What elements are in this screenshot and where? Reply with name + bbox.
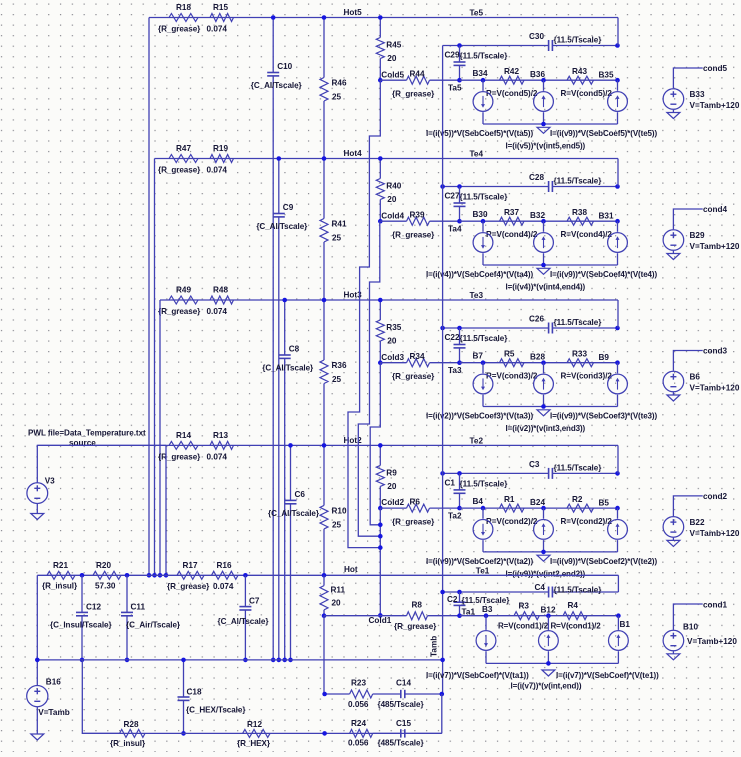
svg-text:V=Tamb+120: V=Tamb+120 [690, 101, 740, 110]
svg-text:R42: R42 [504, 67, 519, 76]
resistor R48 [210, 296, 234, 304]
current source B24 [543, 508, 545, 519]
voltage source B22 [663, 517, 684, 538]
svg-text:R6: R6 [410, 497, 421, 506]
svg-text:Te4: Te4 [470, 150, 484, 159]
svg-text:57.30: 57.30 [95, 581, 116, 590]
capacitor C3 [548, 468, 550, 479]
junction [378, 534, 383, 539]
junction [615, 184, 620, 189]
svg-text:cond3: cond3 [703, 347, 728, 356]
current source B12 [547, 616, 549, 630]
node B5 [615, 506, 620, 511]
wire Cold1 row [324, 615, 407, 617]
svg-text:0.074: 0.074 [207, 452, 228, 461]
junction [541, 404, 546, 409]
svg-text:R=V(cond5)/2: R=V(cond5)/2 [561, 89, 613, 98]
resistor R6 [380, 507, 406, 509]
current source B30 [482, 221, 484, 232]
wire right column [617, 300, 619, 328]
svg-text:R47: R47 [176, 144, 191, 153]
wire Cold5 bus [348, 80, 380, 547]
svg-text:{R_grease}: {R_grease} [392, 231, 435, 240]
svg-text:B35: B35 [599, 71, 614, 80]
resistor R39 [380, 220, 406, 222]
node Cold4 [378, 219, 383, 224]
wire Cold3 bus [370, 363, 380, 525]
ground [672, 110, 674, 113]
resistor R3 [514, 612, 539, 620]
svg-text:R49: R49 [176, 286, 191, 295]
svg-text:C2: C2 [447, 595, 458, 604]
svg-text:R9: R9 [386, 468, 397, 477]
svg-text:0.074: 0.074 [213, 582, 234, 591]
svg-text:20: 20 [387, 482, 397, 491]
junction [277, 156, 282, 161]
svg-text:{R_grease}: {R_grease} [167, 582, 210, 591]
svg-text:R41: R41 [332, 220, 347, 229]
junction [125, 658, 130, 663]
capacitor C14 [373, 693, 401, 695]
wire inner Tamb rail [443, 327, 460, 329]
junction [440, 326, 445, 331]
svg-text:R19: R19 [213, 144, 228, 153]
svg-text:{485/Tscale}: {485/Tscale} [378, 700, 425, 709]
svg-text:PWL file=Data_Temperature.txt: PWL file=Data_Temperature.txt [28, 429, 146, 438]
svg-text:C22: C22 [445, 333, 460, 342]
svg-text:B7: B7 [473, 352, 484, 361]
wire R11 column to R23 [323, 616, 325, 694]
svg-text:R5: R5 [504, 350, 515, 359]
svg-text:Ta4: Ta4 [448, 225, 462, 234]
wire air-R column stage 5 [323, 18, 325, 78]
capacitor C1 [459, 473, 461, 490]
current source B4 [482, 508, 484, 519]
svg-text:{11.5/Tscale}: {11.5/Tscale} [554, 318, 603, 327]
ground [537, 410, 550, 416]
resistor R9 [379, 445, 381, 465]
junction [80, 658, 85, 663]
node Ta3 [457, 360, 462, 365]
svg-text:C12: C12 [86, 603, 101, 612]
svg-text:{C_Al/Tscale}: {C_Al/Tscale} [218, 617, 270, 626]
resistor R37 [500, 217, 525, 225]
resistor R4 [563, 612, 587, 620]
svg-text:Tamb: Tamb [430, 636, 439, 657]
wire block bottom rail [483, 406, 618, 408]
wire B16 column [36, 575, 38, 685]
wire cond2 [673, 496, 702, 516]
svg-text:C15: C15 [396, 719, 411, 728]
svg-text:R46: R46 [332, 79, 347, 88]
ground [537, 268, 550, 274]
wire Ta row [460, 79, 618, 81]
capacitor C10 [267, 72, 279, 74]
svg-text:B36: B36 [530, 70, 545, 79]
svg-text:R48: R48 [213, 286, 228, 295]
wire C-column stage 3 [284, 300, 286, 355]
current source B5 [617, 508, 619, 519]
svg-text:R38: R38 [572, 208, 587, 217]
svg-text:{C_HEX/Tscale}: {C_HEX/Tscale} [186, 706, 246, 715]
svg-text:{485/Tscale}: {485/Tscale} [378, 739, 425, 748]
resistor R35 [379, 300, 381, 320]
wire cond4 [673, 209, 702, 229]
junction [457, 326, 462, 331]
junction [457, 184, 462, 189]
resistor R42 [500, 76, 525, 84]
wire feeder column stage 3 [159, 300, 161, 575]
junction [378, 443, 383, 448]
resistor R38 [567, 217, 594, 225]
resistor R10 [320, 505, 328, 529]
wire block bottom rail [486, 662, 618, 664]
ground [542, 670, 555, 676]
capacitor C30 [548, 40, 550, 51]
svg-text:I=(i(v9))*V(SebCoef2)*(V(te2)): I=(i(v9))*V(SebCoef2)*(V(te2)) [550, 557, 657, 566]
svg-text:I=(i(v5))*(v(int5,end5)): I=(i(v5))*(v(int5,end5)) [506, 142, 586, 151]
capacitor C9 [273, 213, 285, 215]
svg-text:25: 25 [332, 520, 342, 529]
wire Ta1 row [460, 615, 619, 617]
svg-text:R36: R36 [332, 361, 347, 370]
current source B32 [543, 221, 545, 232]
resistor R18 [169, 14, 198, 22]
svg-text:Ta2: Ta2 [448, 511, 462, 520]
svg-text:R20: R20 [96, 561, 111, 570]
junction [615, 326, 620, 331]
svg-text:R=V(cond4)/2: R=V(cond4)/2 [561, 230, 613, 239]
svg-text:{R_grease}: {R_grease} [158, 166, 201, 175]
resistor R44 [380, 79, 406, 81]
resistor R46 [320, 78, 328, 102]
capacitor C29 [459, 46, 461, 63]
node Cold2 [378, 506, 383, 511]
svg-text:Cold5: Cold5 [381, 70, 404, 79]
svg-text:R4: R4 [568, 601, 579, 610]
svg-text:I=(i(v9))*V(SebCoef4)*(V(te4)): I=(i(v9))*V(SebCoef4)*(V(te4)) [550, 270, 657, 279]
junction [282, 298, 287, 303]
wire Ta row [460, 220, 618, 222]
current source B9 [617, 363, 619, 374]
svg-text:C6: C6 [295, 490, 306, 499]
svg-text:V=Tamb: V=Tamb [38, 708, 69, 717]
wire feeder column stage 5 [148, 18, 150, 576]
svg-text:I=(i(v4))*(v(int4,end4)): I=(i(v4))*(v(int4,end4)) [506, 283, 586, 292]
wire Hot5/Te5 rail [149, 17, 618, 19]
junction [243, 658, 248, 663]
node Ta5 [457, 78, 462, 83]
wire feeder column stage 2 [165, 445, 167, 575]
junction [158, 573, 163, 578]
svg-text:R16: R16 [217, 561, 232, 570]
svg-text:R45: R45 [386, 41, 401, 50]
junction [378, 613, 383, 618]
current source B36 [543, 80, 545, 91]
resistor R36 [320, 360, 328, 384]
resistor R24 [350, 729, 373, 737]
svg-text:B3: B3 [482, 605, 493, 614]
svg-text:Cold2: Cold2 [381, 498, 404, 507]
wire cond1 [673, 604, 702, 630]
svg-text:C27: C27 [445, 192, 460, 201]
junction [541, 550, 546, 555]
svg-text:R18: R18 [176, 3, 191, 12]
wire Hot4/Te4 rail [155, 158, 619, 160]
svg-text:B6: B6 [690, 373, 701, 382]
node Cold3 [378, 360, 383, 365]
wire inner Tamb rail [443, 45, 460, 47]
capacitor C7 [244, 575, 246, 606]
resistor R47 [169, 155, 198, 163]
svg-text:I=(i(v9))*V(SebCoef5)*(V(te5)): I=(i(v9))*V(SebCoef5)*(V(te5)) [550, 129, 657, 138]
wire source [37, 445, 166, 482]
svg-text:cond1: cond1 [703, 601, 728, 610]
junction [541, 122, 546, 127]
capacitor C2 [459, 592, 461, 602]
svg-text:{11.5/Tscale}: {11.5/Tscale} [460, 193, 509, 202]
junction [181, 731, 186, 736]
node B31 [615, 219, 620, 224]
wire C-column stage 2 [290, 445, 292, 500]
node B7 [481, 360, 486, 365]
node B1 [616, 613, 621, 618]
wire C-column stage 5 [272, 18, 274, 73]
svg-text:{R_grease}: {R_grease} [392, 372, 435, 381]
resistor R12 [243, 729, 270, 737]
resistor R11 [323, 575, 325, 585]
svg-text:R37: R37 [504, 208, 519, 217]
junction [282, 658, 287, 663]
capacitor C27 [459, 187, 461, 204]
svg-text:{C_Air/Tscale}: {C_Air/Tscale} [126, 621, 181, 630]
svg-text:{11.5/Tscale}: {11.5/Tscale} [554, 586, 603, 595]
junction [322, 573, 327, 578]
junction [440, 658, 445, 663]
svg-text:{11.5/Tscale}: {11.5/Tscale} [554, 463, 603, 472]
svg-text:R=V(cond1)/2: R=V(cond1)/2 [498, 622, 549, 631]
svg-text:Te1: Te1 [476, 566, 490, 575]
resistor R2 [567, 504, 594, 512]
junction [125, 573, 130, 578]
junction [322, 156, 327, 161]
svg-text:Hot: Hot [344, 565, 358, 574]
svg-text:R28: R28 [124, 720, 139, 729]
junction [164, 573, 169, 578]
current source B35 [617, 80, 619, 91]
svg-text:{C_Al/Tscale}: {C_Al/Tscale} [268, 509, 320, 518]
svg-text:cond5: cond5 [703, 64, 728, 73]
capacitor C22 [459, 328, 461, 345]
svg-text:R=V(cond1)/2: R=V(cond1)/2 [551, 622, 602, 631]
svg-text:C1: C1 [445, 478, 456, 487]
resistor R14 [169, 441, 198, 449]
svg-text:Te3: Te3 [470, 291, 484, 300]
svg-text:R21: R21 [53, 561, 68, 570]
svg-text:B33: B33 [690, 90, 705, 99]
svg-text:{C_Al/Tscale}: {C_Al/Tscale} [256, 222, 308, 231]
junction [322, 731, 327, 736]
junction [378, 545, 383, 550]
svg-text:Cold3: Cold3 [381, 353, 404, 362]
svg-text:Ta3: Ta3 [448, 366, 462, 375]
svg-text:{R_grease}: {R_grease} [158, 307, 201, 316]
svg-text:I=(i(v7))*V(SebCoef)*(V(te1)): I=(i(v7))*V(SebCoef)*(V(te1)) [556, 671, 659, 680]
current source B34 [482, 80, 484, 91]
junction [457, 471, 462, 476]
svg-text:C11: C11 [131, 603, 146, 612]
voltage source B16 [27, 686, 48, 707]
svg-text:20: 20 [387, 195, 397, 204]
current source B3 [485, 616, 487, 630]
svg-text:cond2: cond2 [703, 492, 728, 501]
svg-text:{C_Al/Tscale}: {C_Al/Tscale} [262, 364, 314, 373]
junction [615, 471, 620, 476]
junction [440, 692, 445, 697]
svg-text:cond4: cond4 [703, 205, 728, 214]
svg-text:R=V(cond3)/2: R=V(cond3)/2 [486, 372, 538, 381]
svg-text:B28: B28 [530, 353, 545, 362]
svg-text:C29: C29 [445, 51, 460, 60]
junction [80, 573, 85, 578]
svg-text:R11: R11 [331, 586, 346, 595]
junction [615, 43, 620, 48]
wire block bottom rail [483, 123, 618, 125]
svg-text:B1: B1 [620, 620, 631, 629]
ground [672, 651, 674, 654]
wire air-R column stage 4 [323, 159, 325, 219]
current source B1 [617, 616, 619, 630]
junction [378, 298, 383, 303]
svg-text:{R_grease}: {R_grease} [392, 517, 435, 526]
svg-text:B9: B9 [599, 353, 610, 362]
wire Ta row [460, 362, 618, 364]
svg-text:B31: B31 [599, 212, 614, 221]
svg-text:R23: R23 [351, 679, 366, 688]
junction [457, 590, 462, 595]
svg-text:C10: C10 [277, 62, 292, 71]
wire R23 row [325, 693, 350, 695]
wire Hot2/Te2 rail [37, 444, 618, 446]
svg-text:0.074: 0.074 [207, 307, 228, 316]
node Cold1 [322, 613, 327, 618]
svg-text:C7: C7 [249, 597, 260, 606]
resistor R43 [567, 76, 594, 84]
ground [672, 251, 674, 254]
junction [541, 263, 546, 268]
junction [378, 523, 383, 528]
svg-text:C4: C4 [535, 583, 546, 592]
node B34 [481, 78, 486, 83]
wire cond3 [673, 351, 702, 371]
svg-text:I=(i(v7))*(v(int,end)): I=(i(v7))*(v(int,end)) [511, 682, 582, 691]
svg-text:R=V(cond3)/2: R=V(cond3)/2 [561, 372, 613, 381]
svg-text:R17: R17 [183, 561, 198, 570]
svg-text:R12: R12 [247, 720, 262, 729]
wire block bottom rail [483, 264, 618, 266]
svg-text:B22: B22 [690, 518, 705, 527]
svg-text:0.056: 0.056 [348, 739, 369, 748]
svg-text:R=V(cond4)/2: R=V(cond4)/2 [486, 230, 538, 239]
svg-text:C9: C9 [283, 203, 294, 212]
svg-text:20: 20 [332, 599, 342, 608]
capacitor C28 [548, 181, 550, 192]
svg-text:B30: B30 [473, 210, 488, 219]
junction [271, 658, 276, 663]
voltage source B33 [663, 89, 684, 110]
junction [546, 661, 551, 666]
node B4 [481, 506, 486, 511]
resistor R8 [407, 612, 428, 620]
svg-text:R2: R2 [572, 495, 583, 504]
junction [378, 15, 383, 20]
svg-text:Te5: Te5 [470, 9, 484, 18]
wire Ta row [460, 507, 618, 509]
svg-text:V3: V3 [45, 477, 55, 486]
svg-text:{11.5/Tscale}: {11.5/Tscale} [460, 334, 509, 343]
wire air-R column stage 3 [323, 300, 325, 360]
node Ta1 [457, 613, 462, 618]
svg-text:R35: R35 [386, 323, 401, 332]
svg-text:R43: R43 [572, 67, 587, 76]
svg-text:Ta5: Ta5 [448, 84, 462, 93]
svg-text:C3: C3 [529, 460, 540, 469]
resistor R23 [350, 690, 373, 698]
resistor R33 [567, 359, 594, 367]
wire C12 column lower [82, 660, 119, 734]
svg-text:C8: C8 [289, 345, 300, 354]
svg-text:Cold1: Cold1 [369, 616, 392, 625]
svg-text:B34: B34 [473, 69, 488, 78]
svg-text:Cold4: Cold4 [381, 211, 404, 220]
svg-text:B10: B10 [683, 623, 698, 632]
node B28 [541, 360, 546, 365]
svg-text:I=(i(v9))*(v(int2,end2)): I=(i(v9))*(v(int2,end2)) [506, 569, 586, 578]
capacitor C8 [279, 354, 291, 356]
svg-text:R8: R8 [412, 601, 423, 610]
wire C-column stage 4 [278, 159, 280, 214]
svg-text:{C_Al/Tscale}: {C_Al/Tscale} [251, 81, 303, 90]
svg-text:V=Tamb+120: V=Tamb+120 [690, 529, 740, 538]
junction [147, 573, 152, 578]
svg-text:R=V(cond5)/2: R=V(cond5)/2 [486, 89, 538, 98]
svg-text:0.056: 0.056 [348, 700, 369, 709]
svg-text:25: 25 [332, 93, 342, 102]
ground [672, 538, 674, 541]
junction [440, 590, 445, 595]
ground [537, 127, 550, 133]
current source B31 [617, 221, 619, 232]
node Ta4 [457, 219, 462, 224]
node B3 [484, 613, 489, 618]
ground [537, 555, 550, 561]
svg-text:V=Tamb+120: V=Tamb+120 [690, 242, 740, 251]
svg-text:Te2: Te2 [470, 436, 484, 445]
junction [457, 43, 462, 48]
resistor R49 [169, 296, 198, 304]
junction [322, 298, 327, 303]
node B35 [615, 78, 620, 83]
svg-text:25: 25 [332, 375, 342, 384]
junction [322, 692, 327, 697]
capacitor C18 [183, 660, 185, 697]
resistor R28 [120, 729, 145, 737]
svg-text:C18: C18 [187, 688, 202, 697]
svg-text:0.074: 0.074 [207, 25, 228, 34]
junction [243, 573, 248, 578]
wire Hot3/Te3 rail [160, 299, 618, 301]
current source B7 [482, 363, 484, 374]
